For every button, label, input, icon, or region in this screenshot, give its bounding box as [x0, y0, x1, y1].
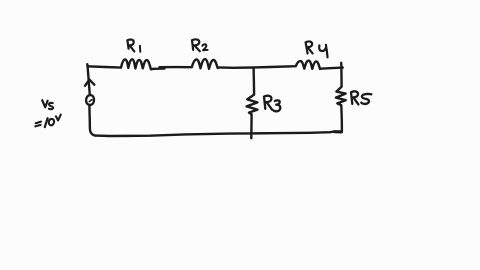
label R3 — [264, 96, 272, 110]
resistor R3 branch — [247, 68, 258, 138]
wire right with resistor R5 — [336, 63, 346, 132]
source inner mark — [89, 100, 92, 102]
wire bottom — [96, 132, 342, 136]
label Vs — [42, 100, 47, 107]
source circle Vs — [86, 95, 94, 105]
label =10v — [35, 122, 41, 127]
label R2 — [192, 39, 200, 51]
label R5 — [351, 91, 358, 104]
wire left (source branch) — [87, 64, 95, 135]
label R1 — [127, 40, 134, 52]
wire top with resistors R1 R2 R4 — [88, 59, 343, 69]
current arrow — [85, 80, 94, 86]
wire bottom-right overlap blob — [335, 130, 342, 133]
label R4 — [306, 41, 313, 53]
